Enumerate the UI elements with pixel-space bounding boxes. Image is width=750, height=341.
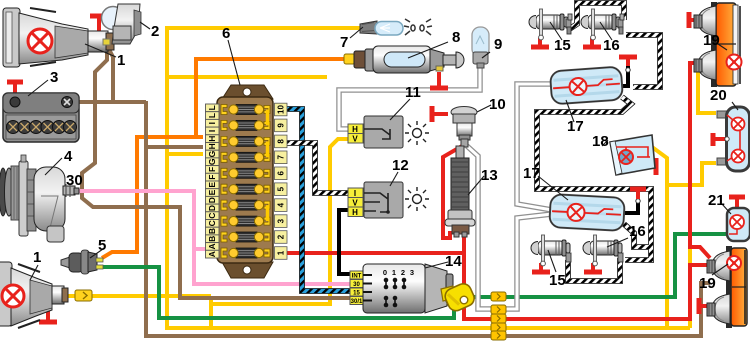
svg-text:I: I xyxy=(354,189,356,198)
svg-text:30: 30 xyxy=(353,282,360,288)
svg-text:E: E xyxy=(207,189,217,195)
svg-text:H: H xyxy=(207,136,217,142)
svg-text:B: B xyxy=(207,228,217,234)
svg-text:H: H xyxy=(352,208,358,217)
svg-text:D: D xyxy=(207,197,217,203)
svg-text:17: 17 xyxy=(523,165,540,182)
svg-text:15: 15 xyxy=(549,272,566,289)
svg-text:8: 8 xyxy=(452,29,460,46)
svg-text:13: 13 xyxy=(481,167,498,184)
svg-text:3: 3 xyxy=(277,218,286,223)
svg-text:9: 9 xyxy=(494,36,502,53)
svg-text:4: 4 xyxy=(277,202,286,207)
svg-text:L: L xyxy=(207,105,217,110)
svg-text:A: A xyxy=(207,251,217,257)
svg-text:4: 4 xyxy=(64,148,73,165)
svg-text:5: 5 xyxy=(98,237,106,254)
svg-text:1: 1 xyxy=(117,52,125,69)
svg-text:9: 9 xyxy=(277,123,286,128)
svg-text:12: 12 xyxy=(392,157,409,174)
svg-text:19: 19 xyxy=(699,275,716,292)
svg-text:2: 2 xyxy=(401,268,405,277)
svg-text:7: 7 xyxy=(277,155,286,160)
svg-text:2: 2 xyxy=(277,234,286,239)
svg-text:6: 6 xyxy=(222,25,230,42)
svg-text:1: 1 xyxy=(392,268,396,277)
svg-text:3: 3 xyxy=(50,69,58,86)
svg-text:17: 17 xyxy=(567,118,584,135)
svg-text:C: C xyxy=(207,220,217,226)
svg-text:16: 16 xyxy=(603,37,620,54)
svg-text:0: 0 xyxy=(383,268,387,277)
svg-text:G: G xyxy=(207,158,217,165)
svg-text:11: 11 xyxy=(405,84,421,101)
svg-text:7: 7 xyxy=(340,34,348,51)
svg-text:I: I xyxy=(207,122,217,124)
svg-text:16: 16 xyxy=(629,223,646,240)
svg-text:F: F xyxy=(207,175,217,180)
svg-text:2: 2 xyxy=(151,23,159,40)
svg-text:V: V xyxy=(352,135,358,144)
svg-text:INT: INT xyxy=(352,274,362,280)
svg-text:14: 14 xyxy=(445,253,462,270)
svg-text:C: C xyxy=(207,213,217,219)
svg-text:20: 20 xyxy=(710,87,727,104)
svg-text:5: 5 xyxy=(277,186,286,191)
svg-text:30/1: 30/1 xyxy=(351,299,363,305)
svg-text:6: 6 xyxy=(277,171,286,176)
svg-text:1: 1 xyxy=(33,249,41,266)
svg-text:E: E xyxy=(207,182,217,188)
svg-text:21: 21 xyxy=(708,192,725,209)
svg-text:8: 8 xyxy=(277,139,286,144)
svg-text:D: D xyxy=(207,205,217,211)
svg-text:H: H xyxy=(207,143,217,149)
svg-text:15: 15 xyxy=(353,291,360,297)
svg-text:F: F xyxy=(207,167,217,172)
svg-text:30: 30 xyxy=(66,172,83,189)
svg-text:1: 1 xyxy=(277,250,286,255)
svg-text:10: 10 xyxy=(277,105,286,114)
svg-text:G: G xyxy=(207,150,217,157)
svg-text:19: 19 xyxy=(703,32,720,49)
svg-text:L: L xyxy=(207,113,217,118)
svg-text:H: H xyxy=(352,125,358,134)
svg-text:10: 10 xyxy=(489,96,506,113)
svg-text:15: 15 xyxy=(554,37,571,54)
svg-text:V: V xyxy=(352,199,358,208)
svg-text:B: B xyxy=(207,236,217,242)
svg-text:I: I xyxy=(207,130,217,132)
svg-text:3: 3 xyxy=(410,268,414,277)
svg-text:18: 18 xyxy=(592,133,609,150)
svg-text:A: A xyxy=(207,243,217,249)
